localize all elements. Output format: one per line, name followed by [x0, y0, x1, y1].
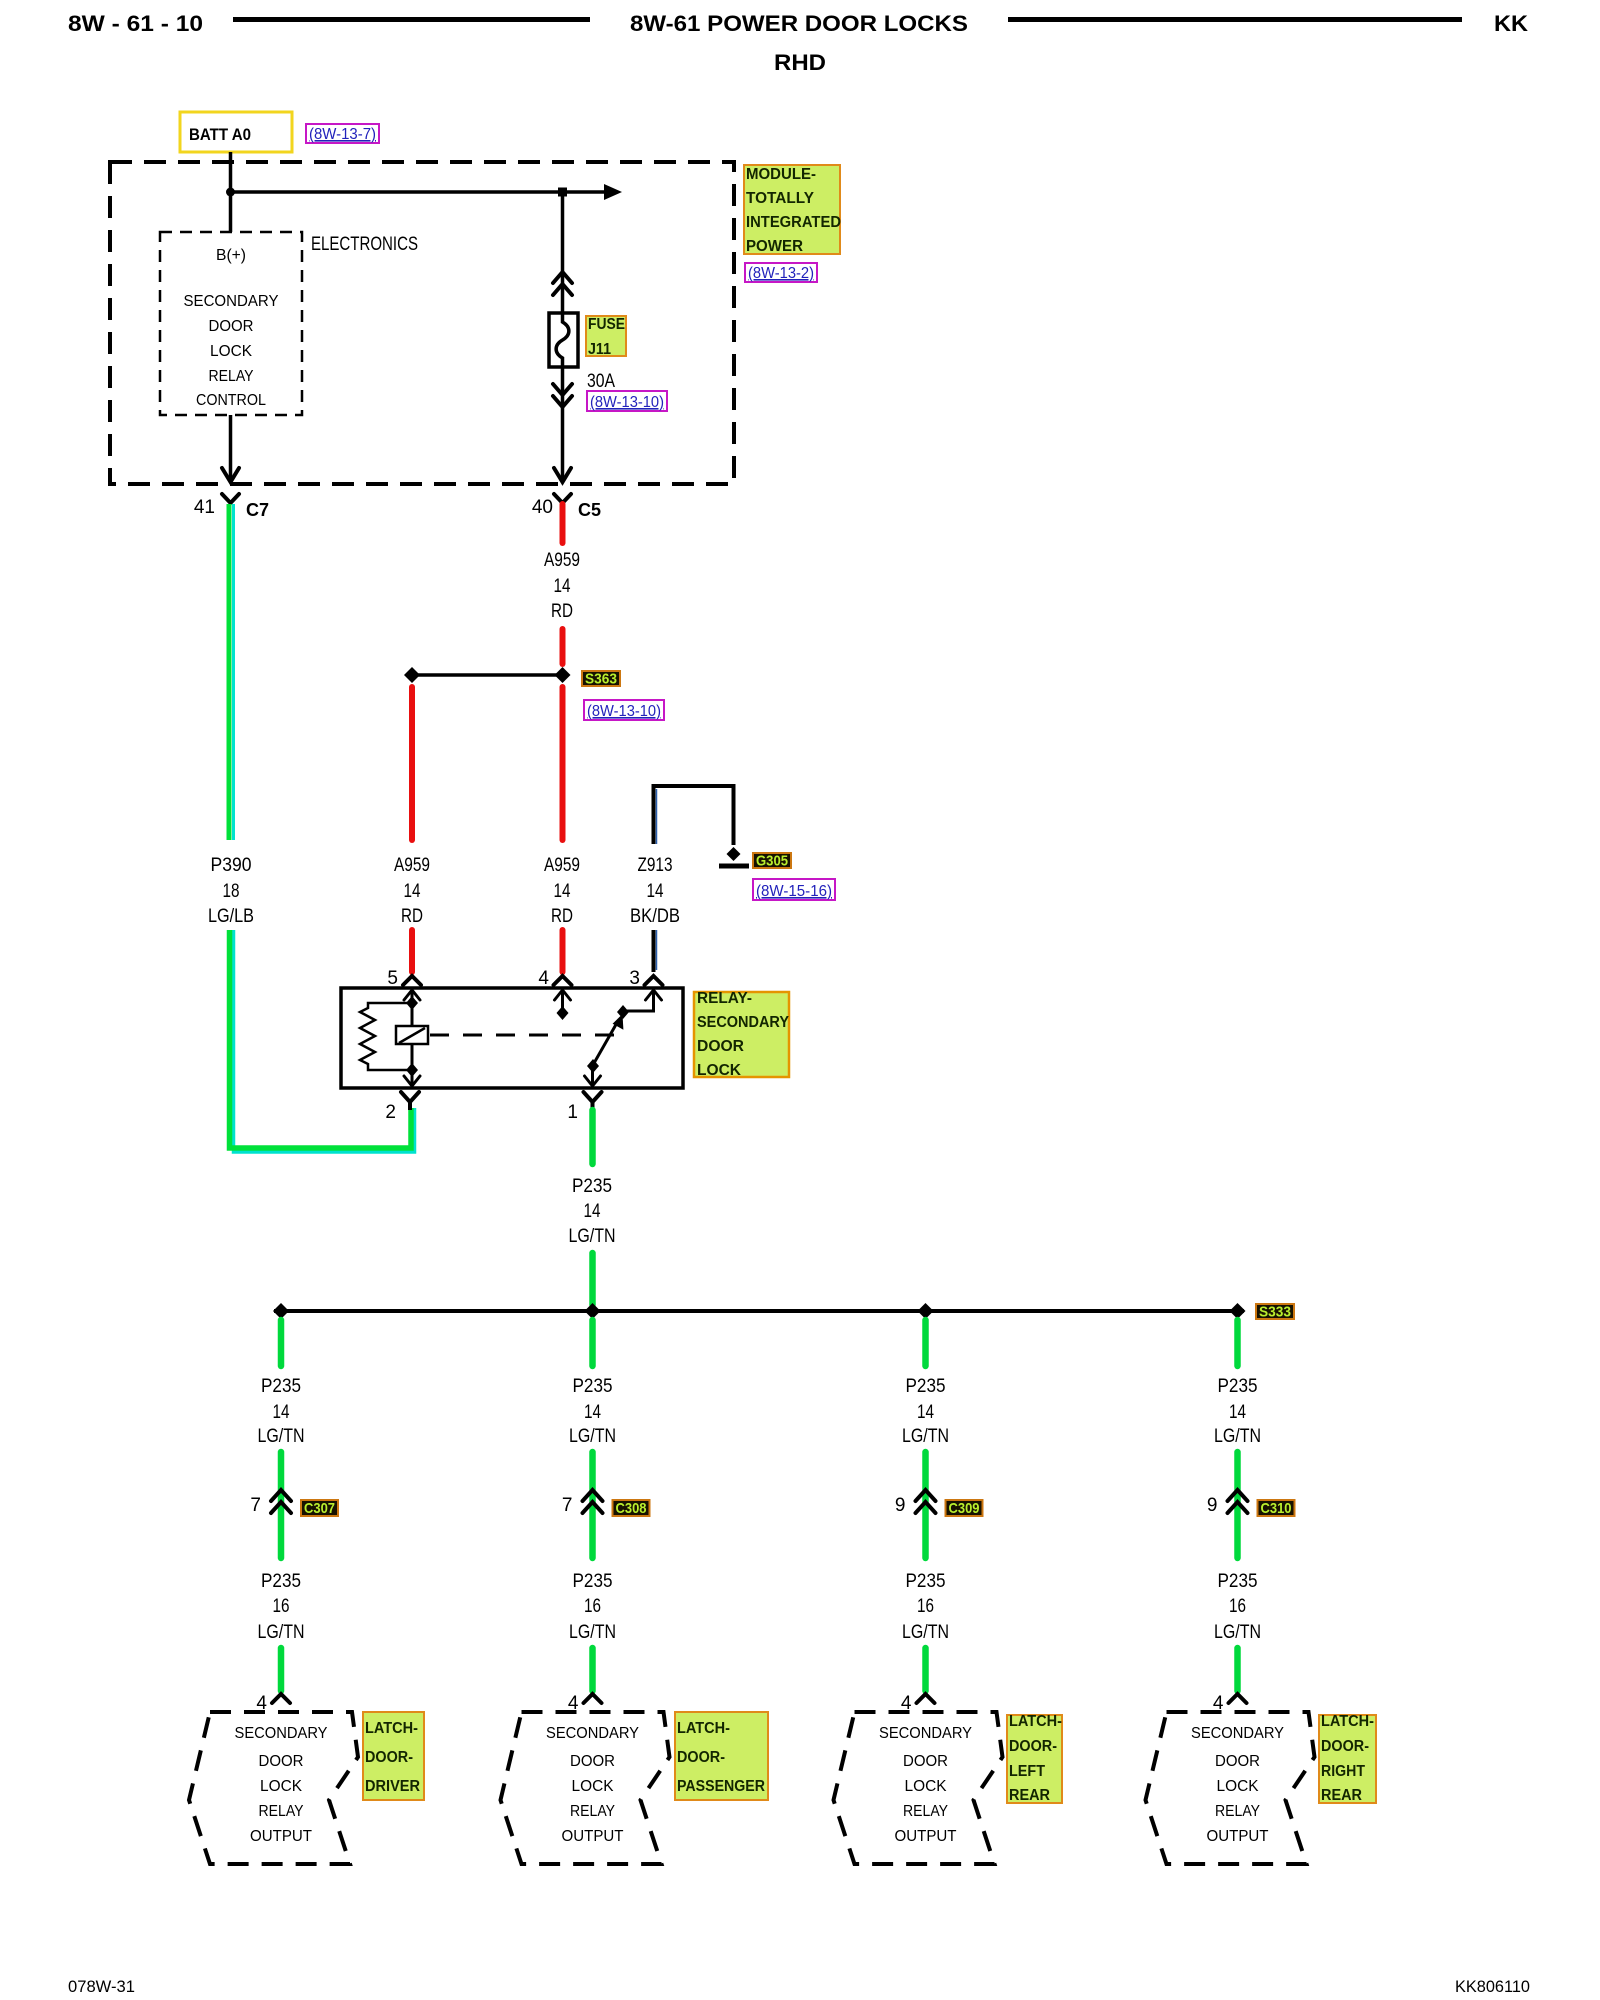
svg-text:RHD: RHD — [774, 50, 826, 75]
label S363 — [582, 671, 620, 686]
svg-text:A959: A959 — [544, 855, 580, 876]
svg-text:078W-31: 078W-31 — [68, 1977, 135, 1996]
svg-text:P235: P235 — [261, 1571, 301, 1592]
svg-text:DOOR: DOOR — [209, 318, 254, 335]
battery feed box BATT A0 — [180, 112, 292, 152]
svg-text:RD: RD — [401, 906, 423, 927]
svg-text:LOCK: LOCK — [260, 1778, 302, 1795]
svg-text:16: 16 — [273, 1596, 290, 1617]
wire to latch passenger — [589, 1648, 596, 1691]
svg-text:14: 14 — [554, 576, 571, 597]
relay pin 2 connector — [401, 1092, 419, 1102]
relay pin 3 internal — [624, 988, 654, 1011]
label C310 — [1258, 1500, 1295, 1516]
link 8W-13-7 — [306, 124, 379, 143]
svg-text:7: 7 — [562, 1495, 573, 1516]
splice node diamond right — [555, 667, 571, 683]
arrow into C5 — [554, 468, 571, 482]
relay pin 4 stub — [561, 988, 564, 1012]
RELAYSECTION — [341, 968, 789, 1305]
connector C307 chevrons — [271, 1490, 291, 1501]
relay coil resistor — [360, 1003, 412, 1070]
wire from control box to C7 with arrow — [229, 415, 233, 480]
svg-text:P235: P235 — [906, 1571, 946, 1592]
relay coil box — [396, 1026, 428, 1044]
title rule left — [233, 17, 590, 22]
fuse inline connector chevrons up — [553, 272, 572, 295]
svg-text:LG/TN: LG/TN — [902, 1622, 949, 1643]
splice node S333 diamond 2 — [585, 1303, 601, 1319]
label LATCH-DOOR-PASSENGER — [675, 1712, 768, 1800]
svg-text:RELAY-: RELAY- — [697, 990, 752, 1007]
svg-text:LG/TN: LG/TN — [258, 1426, 305, 1447]
svg-text:16: 16 — [1229, 1596, 1246, 1617]
title rule right — [1008, 17, 1462, 22]
svg-text:LOCK: LOCK — [905, 1778, 947, 1795]
svg-text:LEFT: LEFT — [1009, 1763, 1045, 1780]
svg-text:14: 14 — [647, 881, 664, 902]
relay pin 1 connector — [584, 1092, 602, 1102]
svg-text:J11: J11 — [588, 341, 611, 358]
svg-text:SECONDARY: SECONDARY — [546, 1725, 639, 1742]
svg-text:7: 7 — [250, 1495, 261, 1516]
svg-text:LG/TN: LG/TN — [569, 1226, 616, 1247]
wire bus horizontal with arrow — [231, 190, 605, 194]
svg-text:30A: 30A — [587, 371, 615, 392]
svg-text:DOOR-: DOOR- — [677, 1749, 725, 1766]
relay switch arm — [594, 1021, 619, 1064]
svg-text:ELECTRONICS: ELECTRONICS — [311, 234, 418, 255]
svg-text:C5: C5 — [578, 500, 601, 520]
label MODULE-TOTALLY INTEGRATED POWER — [744, 165, 840, 254]
link 8W-13-10 — [587, 391, 667, 411]
svg-text:RIGHT: RIGHT — [1321, 1763, 1365, 1780]
svg-text:41: 41 — [194, 497, 215, 518]
svg-text:RELAY: RELAY — [209, 368, 254, 385]
svg-text:1: 1 — [567, 1102, 578, 1123]
svg-text:14: 14 — [584, 1201, 601, 1222]
latch pin 4 connector left rear — [917, 1694, 935, 1703]
svg-text:RD: RD — [551, 906, 573, 927]
wire P235 to splice S333 — [589, 1253, 596, 1305]
latch door left rear outline — [834, 1712, 1003, 1864]
label C308 — [613, 1500, 650, 1516]
svg-text:14: 14 — [554, 881, 571, 902]
svg-text:(8W-13-7): (8W-13-7) — [309, 126, 376, 143]
svg-text:14: 14 — [917, 1402, 934, 1423]
splice node diamond left — [404, 667, 420, 683]
wire from BATT A0 down — [229, 152, 233, 232]
connector C310 chevrons — [1228, 1490, 1248, 1501]
module TIPM dashed box — [110, 162, 734, 484]
relay coil feed line pin5 — [411, 988, 414, 1088]
secondary door lock relay control dashed box — [160, 232, 302, 415]
relay common line pin 1 — [591, 1066, 594, 1088]
svg-text:9: 9 — [895, 1495, 906, 1516]
relay pin 4 connector — [554, 976, 572, 985]
svg-text:TOTALLY: TOTALLY — [746, 190, 814, 207]
wire to connector C310 — [1234, 1452, 1241, 1558]
fuse J11 symbol — [549, 313, 578, 367]
svg-text:OUTPUT: OUTPUT — [1207, 1828, 1269, 1845]
svg-text:BK/DB: BK/DB — [630, 906, 680, 927]
svg-text:KK: KK — [1494, 11, 1528, 36]
svg-text:LOCK: LOCK — [697, 1062, 741, 1079]
splice S363 horizontal — [412, 673, 562, 677]
svg-text:S333: S333 — [1259, 1304, 1291, 1321]
svg-text:14: 14 — [273, 1402, 290, 1423]
label FUSE J11 — [586, 316, 626, 356]
svg-text:KK806110: KK806110 — [1455, 1977, 1530, 1996]
svg-text:RELAY: RELAY — [570, 1803, 615, 1820]
svg-text:S363: S363 — [585, 671, 617, 688]
svg-text:LG/TN: LG/TN — [258, 1622, 305, 1643]
svg-text:Z913: Z913 — [638, 855, 673, 876]
svg-text:REAR: REAR — [1009, 1787, 1050, 1804]
svg-text:DOOR-: DOOR- — [1009, 1738, 1057, 1755]
svg-text:14: 14 — [404, 881, 421, 902]
svg-text:OUTPUT: OUTPUT — [895, 1828, 957, 1845]
svg-text:P235: P235 — [573, 1571, 613, 1592]
svg-text:PASSENGER: PASSENGER — [677, 1778, 765, 1795]
wire to connector C308 — [589, 1452, 596, 1558]
svg-text:REAR: REAR — [1321, 1787, 1362, 1804]
link 8W-15-16 — [753, 879, 835, 900]
latch pin 4 connector right rear — [1229, 1694, 1247, 1703]
BOTTOMSECTION — [189, 1303, 1376, 1864]
fuse wire lower — [561, 367, 565, 480]
svg-text:14: 14 — [584, 1402, 601, 1423]
latch pin 4 connector passenger — [584, 1694, 602, 1703]
wire to connector C307 — [278, 1452, 285, 1558]
svg-text:OUTPUT: OUTPUT — [562, 1828, 624, 1845]
svg-text:DOOR: DOOR — [1215, 1753, 1260, 1770]
relay U1 box — [341, 988, 683, 1088]
wire P390 LG/LB lower to relay pin 2 — [234, 930, 415, 1152]
svg-text:LG/LB: LG/LB — [208, 906, 254, 927]
label S333 — [1256, 1304, 1294, 1319]
svg-text:P390: P390 — [211, 855, 252, 876]
svg-text:DOOR: DOOR — [259, 1753, 304, 1770]
wire Z913 BK/DB loop to ground — [654, 786, 734, 845]
wire P235 LG/TN stub left rear — [922, 1320, 929, 1366]
relay pin 5 connector — [403, 976, 421, 985]
relay actuation dashed link — [430, 1034, 616, 1037]
svg-text:P235: P235 — [573, 1376, 613, 1397]
svg-text:(8W-13-10): (8W-13-10) — [587, 703, 661, 720]
svg-text:DOOR: DOOR — [903, 1753, 948, 1770]
label LATCH-DOOR-RIGHT REAR — [1319, 1715, 1376, 1803]
svg-text:8W - 61 - 10: 8W - 61 - 10 — [68, 11, 203, 36]
link 8W-13-10 — [584, 700, 664, 720]
svg-text:RD: RD — [551, 601, 573, 622]
svg-text:LATCH-: LATCH- — [1321, 1713, 1374, 1730]
connector C308 chevrons — [583, 1490, 603, 1501]
latch pin 4 connector driver — [272, 1694, 290, 1703]
svg-text:(8W-15-16): (8W-15-16) — [756, 883, 832, 900]
latch door passenger outline — [501, 1712, 670, 1864]
junction dot at fuse tap — [558, 188, 567, 197]
svg-text:LATCH-: LATCH- — [1009, 1713, 1062, 1730]
svg-text:DOOR: DOOR — [570, 1753, 615, 1770]
svg-text:P235: P235 — [906, 1376, 946, 1397]
latch door driver outline — [189, 1712, 358, 1864]
svg-text:A959: A959 — [394, 855, 430, 876]
svg-text:(8W-13-10): (8W-13-10) — [590, 394, 664, 411]
svg-text:DOOR: DOOR — [697, 1038, 744, 1055]
label G305 — [753, 853, 791, 868]
svg-text:9: 9 — [1207, 1495, 1218, 1516]
svg-text:LATCH-: LATCH- — [677, 1720, 730, 1737]
svg-text:SECONDARY: SECONDARY — [184, 293, 279, 310]
svg-text:C7: C7 — [246, 500, 269, 520]
svg-text:LATCH-: LATCH- — [365, 1720, 418, 1737]
splice node S333 diamond 3 — [918, 1303, 934, 1319]
label C307 — [301, 1500, 338, 1516]
wire A959 RD to splice — [560, 629, 566, 664]
MIDSECTION — [194, 494, 835, 1152]
FOOTER — [68, 1977, 1530, 1996]
svg-text:A959: A959 — [544, 550, 580, 571]
splice node S333 diamond 4 — [1230, 1303, 1246, 1319]
svg-text:B(+): B(+) — [216, 247, 246, 264]
wire to connector C309 — [922, 1452, 929, 1558]
svg-text:G305: G305 — [756, 853, 788, 870]
svg-text:3: 3 — [629, 968, 640, 989]
svg-text:CONTROL: CONTROL — [196, 392, 266, 409]
TOPSECTION — [110, 112, 841, 484]
svg-text:4: 4 — [538, 968, 549, 989]
svg-text:LG/TN: LG/TN — [569, 1426, 616, 1447]
svg-text:C308: C308 — [616, 1500, 647, 1517]
label C309 — [946, 1500, 983, 1516]
svg-text:LG/TN: LG/TN — [902, 1426, 949, 1447]
fuse J11 wire upper — [561, 192, 565, 313]
svg-text:SECONDARY: SECONDARY — [235, 1725, 328, 1742]
svg-text:8W-61 POWER DOOR LOCKS: 8W-61 POWER DOOR LOCKS — [630, 11, 968, 36]
svg-text:BATT A0: BATT A0 — [189, 125, 251, 144]
wire to latch right rear — [1234, 1648, 1241, 1691]
wire to latch driver — [278, 1648, 285, 1691]
svg-text:SECONDARY: SECONDARY — [879, 1725, 972, 1742]
connector C7 pin 41 — [222, 494, 239, 503]
latch door right rear outline — [1146, 1712, 1315, 1864]
label LATCH-DOOR-LEFT REAR — [1007, 1715, 1062, 1803]
svg-text:DRIVER: DRIVER — [365, 1778, 420, 1795]
svg-text:LOCK: LOCK — [1217, 1778, 1259, 1795]
svg-text:16: 16 — [917, 1596, 934, 1617]
wire P235 LG/TN stub passenger — [589, 1320, 596, 1366]
connector C309 chevrons — [916, 1490, 936, 1501]
label RELAY-SECONDARY DOOR LOCK — [694, 992, 789, 1077]
svg-text:C307: C307 — [304, 1500, 335, 1517]
fuse inline connector chevrons down — [553, 384, 572, 407]
junction node dot — [226, 188, 235, 197]
wire A959 RD to relay pin 4 — [560, 930, 566, 972]
svg-text:DOOR-: DOOR- — [1321, 1738, 1369, 1755]
connector C5 pin 40 — [554, 494, 571, 503]
wire A959 RD to relay pin 5 — [409, 930, 415, 972]
svg-text:5: 5 — [387, 968, 398, 989]
svg-text:LG/TN: LG/TN — [1214, 1622, 1261, 1643]
wire P235 LG/TN from pin 1 — [589, 1110, 596, 1164]
svg-text:RELAY: RELAY — [1215, 1803, 1260, 1820]
svg-text:RELAY: RELAY — [259, 1803, 304, 1820]
HEADER — [68, 11, 1528, 75]
svg-text:P235: P235 — [572, 1176, 612, 1197]
svg-text:OUTPUT: OUTPUT — [250, 1828, 312, 1845]
svg-text:C310: C310 — [1261, 1500, 1292, 1517]
wire A959 RD branch left upper — [409, 687, 415, 840]
svg-text:18: 18 — [223, 881, 240, 902]
wire Z913 to relay pin 3 — [652, 930, 656, 972]
svg-text:(8W-13-2): (8W-13-2) — [748, 265, 814, 282]
ground symbol G305 — [727, 847, 741, 861]
svg-text:LG/TN: LG/TN — [569, 1622, 616, 1643]
svg-text:LG/TN: LG/TN — [1214, 1426, 1261, 1447]
wire A959 RD branch right lower — [560, 687, 566, 840]
svg-text:2: 2 — [385, 1102, 396, 1123]
wire to latch left rear — [922, 1648, 929, 1691]
svg-text:INTEGRATED: INTEGRATED — [746, 214, 841, 231]
relay pin 3 connector — [645, 976, 663, 985]
svg-text:RELAY: RELAY — [903, 1803, 948, 1820]
splice node S333 diamond 1 — [273, 1303, 289, 1319]
label LATCH-DOOR-DRIVER — [363, 1712, 424, 1800]
svg-text:MODULE-: MODULE- — [746, 166, 816, 183]
svg-text:P235: P235 — [1218, 1376, 1258, 1397]
svg-text:SECONDARY: SECONDARY — [1191, 1725, 1284, 1742]
link 8W-13-2 — [745, 263, 817, 282]
svg-text:POWER: POWER — [746, 238, 803, 255]
wire P235 LG/TN stub driver — [278, 1320, 285, 1366]
splice S333 bus — [274, 1309, 1244, 1313]
svg-text:16: 16 — [584, 1596, 601, 1617]
svg-text:P235: P235 — [1218, 1571, 1258, 1592]
svg-text:FUSE: FUSE — [588, 316, 625, 333]
svg-text:14: 14 — [1229, 1402, 1246, 1423]
svg-text:LOCK: LOCK — [210, 343, 252, 360]
svg-text:40: 40 — [532, 497, 553, 518]
svg-text:P235: P235 — [261, 1376, 301, 1397]
wire P235 LG/TN stub right rear — [1234, 1320, 1241, 1366]
svg-text:SECONDARY: SECONDARY — [697, 1014, 789, 1031]
svg-text:DOOR-: DOOR- — [365, 1749, 413, 1766]
svg-text:LOCK: LOCK — [572, 1778, 614, 1795]
wire P390 LG/LB upper — [227, 504, 232, 840]
wire A959 RD from C5 — [560, 504, 566, 543]
svg-text:C309: C309 — [949, 1500, 980, 1517]
